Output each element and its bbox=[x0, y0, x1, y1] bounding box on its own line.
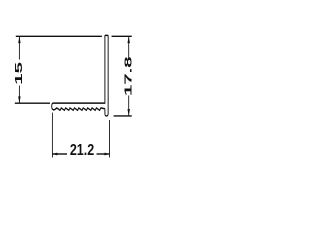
svg-text:15: 15 bbox=[14, 62, 24, 85]
svg-text:17.8: 17.8 bbox=[123, 56, 133, 96]
svg-text:21.2: 21.2 bbox=[70, 141, 94, 159]
